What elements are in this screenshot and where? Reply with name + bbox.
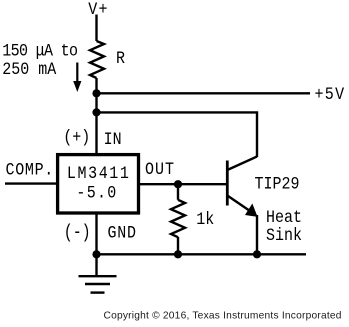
svg-text:(-): (-) [64, 223, 91, 244]
svg-text:R: R [116, 48, 125, 69]
svg-text:-5.0: -5.0 [76, 182, 117, 203]
svg-text:Sink: Sink [266, 225, 302, 246]
svg-text:TIP29: TIP29 [255, 173, 300, 194]
svg-text:COMP.: COMP. [6, 159, 54, 180]
svg-text:(+): (+) [63, 127, 90, 148]
svg-text:1k: 1k [196, 209, 214, 230]
svg-text:+5V: +5V [315, 84, 346, 105]
svg-text:IN: IN [104, 129, 122, 150]
svg-text:V+: V+ [88, 0, 109, 19]
svg-text:OUT: OUT [145, 159, 175, 180]
svg-text:GND: GND [108, 222, 137, 243]
svg-text:LM3411: LM3411 [67, 163, 131, 184]
svg-text:Copyright © 2016, Texas Instru: Copyright © 2016, Texas Instruments Inco… [104, 311, 342, 322]
svg-text:250 mA: 250 mA [2, 59, 56, 80]
